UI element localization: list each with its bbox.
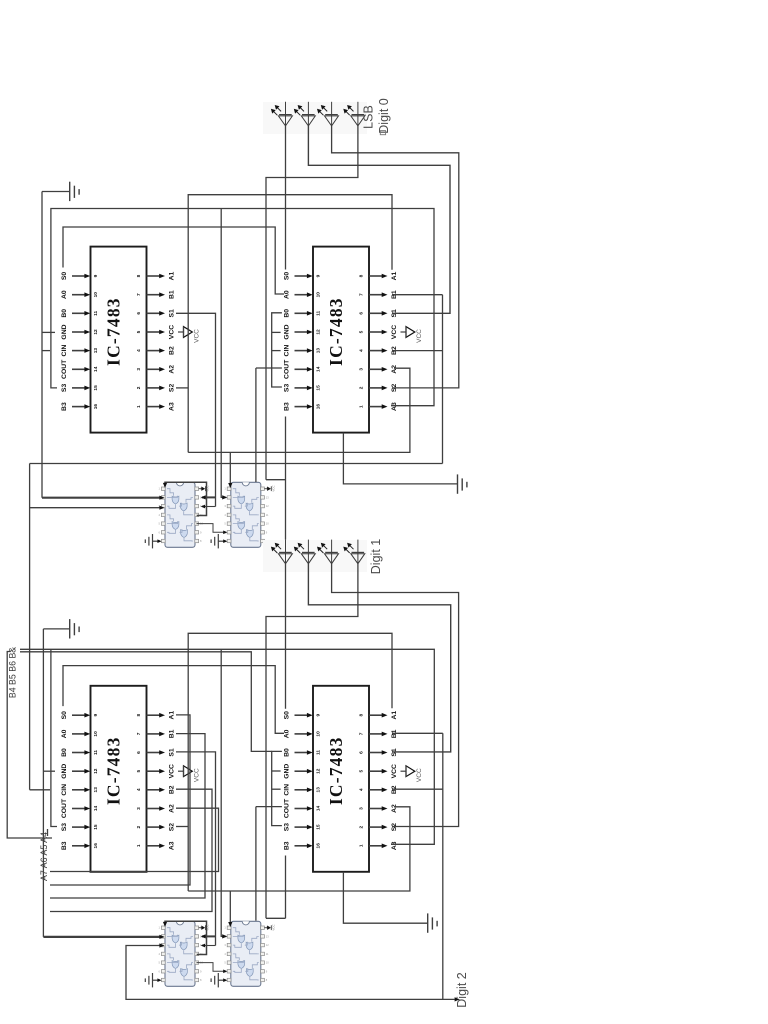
svg-text:IC-7483: IC-7483 — [104, 736, 124, 805]
svg-text:VCC: VCC — [169, 764, 176, 778]
svg-text:11: 11 — [316, 310, 322, 315]
wire A1(U4) riser and long vertical — [188, 633, 392, 891]
wire S1(U3) down to U7 right pin2 — [176, 752, 216, 946]
wire S3(U1) to A3(U2) — [51, 209, 434, 406]
svg-text:A0: A0 — [61, 290, 68, 299]
svg-text:A0: A0 — [61, 729, 68, 738]
svg-text:LSB: LSB — [362, 105, 376, 129]
svg-text:VCC: VCC — [391, 764, 398, 778]
svg-text:2: 2 — [136, 825, 142, 828]
svg-text:8: 8 — [359, 714, 365, 717]
ground GND bottom-right — [428, 913, 437, 932]
svg-text:B3: B3 — [284, 402, 291, 411]
gate inside U6 — [238, 496, 245, 504]
gate inside U7 — [172, 935, 179, 943]
svg-text:3: 3 — [359, 368, 365, 371]
ground GND mid-right — [458, 474, 467, 493]
svg-text:7: 7 — [359, 732, 365, 735]
svg-text:6: 6 — [136, 312, 142, 315]
wire COUT(U4) stub — [256, 806, 282, 808]
svg-text:A1: A1 — [391, 711, 398, 720]
gate inside U7 — [172, 961, 179, 969]
gate inside U5 — [172, 522, 179, 530]
VCC power symbol of U4 — [401, 770, 407, 772]
svg-text:6: 6 — [359, 312, 365, 315]
gate inside U8 — [238, 935, 245, 943]
svg-text:S1: S1 — [169, 748, 176, 757]
wire B-input line 2 to B0(U4) — [20, 652, 272, 752]
svg-text:VCC: VCC — [194, 329, 201, 343]
wire loop over top of U7 from right pin4 to left pin1 — [165, 921, 207, 954]
wire A-input lines to U3 right-side pins — [50, 808, 219, 871]
svg-text:16: 16 — [93, 404, 99, 410]
svg-text:B0: B0 — [284, 309, 291, 318]
wire S0(U3) to A0(U4) — [63, 666, 284, 734]
svg-text:4: 4 — [136, 349, 142, 352]
gate inside U7 — [181, 969, 188, 977]
mini VCC of U6 — [264, 488, 267, 490]
svg-text:5: 5 — [359, 330, 365, 333]
svg-text:VCC: VCC — [416, 329, 423, 343]
svg-text:S2: S2 — [169, 823, 176, 832]
svg-text:6: 6 — [359, 751, 365, 754]
LED D3 (digit 0) — [317, 102, 339, 126]
svg-text:9: 9 — [93, 274, 99, 277]
svg-text:S1: S1 — [169, 309, 176, 318]
gate inside U6 — [246, 503, 253, 511]
svg-text:COUT: COUT — [284, 798, 291, 818]
wire LED1 down to S0(U2) label top — [285, 126, 287, 270]
svg-text:10: 10 — [93, 731, 99, 737]
IC U2 4-bit adder IC-7483 — [284, 247, 424, 433]
ground GND top-left — [70, 182, 79, 201]
svg-text:14: 14 — [93, 806, 99, 812]
svg-text:A3: A3 — [169, 402, 176, 411]
wire branch to U6 pin1 — [229, 452, 231, 485]
svg-text:5: 5 — [359, 770, 365, 773]
mini VCC of U7 — [199, 927, 202, 929]
wire U6 ground to pin7 — [218, 540, 224, 542]
svg-text:5: 5 — [136, 770, 142, 773]
wire S1(U4) to LED6 — [308, 564, 450, 752]
wire U7 ground to pin7 — [153, 979, 159, 981]
svg-text:A2: A2 — [391, 804, 398, 813]
svg-text:S0: S0 — [284, 272, 291, 281]
svg-text:COUT: COUT — [61, 798, 68, 818]
ground GND mid-left — [70, 619, 79, 638]
svg-text:10: 10 — [316, 292, 322, 298]
svg-text:13: 13 — [93, 787, 99, 793]
wire S2(U4) to LED7 — [332, 564, 459, 827]
svg-text:10: 10 — [316, 731, 322, 737]
wire B3(U2) label bottom down to LED5 top, via U-link — [285, 417, 287, 540]
gate inside U5 — [181, 530, 188, 538]
svg-text:3: 3 — [136, 807, 142, 810]
svg-text:B3: B3 — [284, 841, 291, 850]
LED D6 (digit 1) — [294, 540, 316, 564]
svg-text:11: 11 — [93, 310, 99, 315]
svg-text:S2: S2 — [169, 384, 176, 393]
svg-text:COUT: COUT — [284, 359, 291, 379]
gate inside U8 — [246, 969, 253, 977]
svg-text:A2: A2 — [169, 804, 176, 813]
svg-text:VCC: VCC — [194, 768, 201, 782]
wire ground2 to GND(U3) and thick line to U7 pin2 — [43, 628, 69, 630]
svg-text:14: 14 — [93, 366, 99, 372]
gate inside U8 — [238, 961, 245, 969]
svg-text:10: 10 — [93, 292, 99, 298]
wire LED8 down to U-link — [266, 564, 358, 919]
wire B1/B2(U2) to carry chain — [392, 294, 443, 296]
svg-text:9: 9 — [93, 714, 99, 717]
svg-text:A1: A1 — [391, 271, 398, 280]
svg-text:14: 14 — [316, 806, 322, 812]
svg-text:15: 15 — [316, 824, 322, 830]
wire B3(U4) label bottom to U-link — [285, 856, 287, 919]
svg-text:GND: GND — [284, 324, 291, 339]
svg-text:13: 13 — [316, 787, 322, 793]
svg-text:GND: GND — [61, 764, 68, 779]
wire B1/B2(U4) down to Digit 2 output — [392, 732, 443, 734]
wire S0(U1) to A0(U2) — [63, 227, 284, 294]
svg-text:IC-7483: IC-7483 — [326, 736, 346, 805]
small stray box — [380, 131, 385, 135]
gate inside U8 — [246, 942, 253, 950]
wire COUT(U2) stub — [256, 367, 282, 369]
svg-text:A0: A0 — [284, 290, 291, 299]
svg-text:Digit 0: Digit 0 — [377, 98, 391, 133]
svg-text:7: 7 — [136, 732, 142, 735]
wire LED4 down to U-link — [266, 126, 358, 480]
svg-text:B1: B1 — [169, 290, 176, 299]
svg-text:B0: B0 — [284, 748, 291, 757]
svg-text:2: 2 — [359, 386, 365, 389]
svg-text:IC-7483: IC-7483 — [104, 297, 124, 366]
svg-text:A3: A3 — [169, 841, 176, 850]
ground GND of U8 — [211, 973, 218, 987]
svg-text:S3: S3 — [61, 384, 68, 393]
wire U5 pin5 to U6 pin6 — [197, 524, 225, 533]
svg-text:15: 15 — [316, 385, 322, 391]
svg-text:12: 12 — [316, 768, 322, 774]
IC U4 4-bit adder IC-7483 — [284, 686, 424, 872]
wire U5 ground to pin7 — [153, 540, 159, 542]
svg-text:13: 13 — [316, 348, 322, 354]
svg-text:A3: A3 — [391, 841, 398, 850]
svg-text:CIN: CIN — [284, 784, 291, 796]
ground GND of U7 — [145, 973, 152, 987]
LED D1 (digit 0) — [271, 102, 293, 126]
wire S2(U1) to A2(U2) — [176, 387, 188, 389]
svg-text:IC-7483: IC-7483 — [326, 297, 346, 366]
wire ground3 to bottom of U2 — [343, 433, 457, 484]
LED D7 (digit 1) — [317, 540, 339, 564]
svg-text:Digit 1: Digit 1 — [369, 539, 383, 574]
svg-text:B3: B3 — [61, 402, 68, 411]
svg-text:B1: B1 — [169, 729, 176, 738]
svg-text:S0: S0 — [284, 711, 291, 720]
quad gate IC package U7 — [159, 921, 210, 986]
svg-text:15: 15 — [93, 385, 99, 391]
svg-text:B0: B0 — [61, 309, 68, 318]
VCC power symbol of U2 — [401, 331, 407, 333]
quad gate IC package U8 — [224, 921, 275, 986]
LED D8 (digit 1) — [343, 540, 365, 564]
wire comb B0/GND/CIN/S3 of U4 — [272, 751, 282, 825]
wire U7 pin5 to U8 pin6 — [197, 963, 225, 972]
svg-text:8: 8 — [136, 274, 142, 277]
svg-text:B4 B5 B6 B&: B4 B5 B6 B& — [8, 647, 18, 698]
svg-text:4: 4 — [359, 349, 365, 352]
svg-text:B0: B0 — [61, 748, 68, 757]
svg-text:A1: A1 — [169, 271, 176, 280]
svg-text:12: 12 — [93, 768, 99, 774]
svg-text:16: 16 — [316, 404, 322, 410]
svg-text:A3: A3 — [391, 402, 398, 411]
wire A1(U2) riser and long vertical — [188, 195, 392, 453]
svg-text:A2: A2 — [391, 365, 398, 374]
svg-text:S0: S0 — [61, 272, 68, 281]
svg-text:7: 7 — [136, 293, 142, 296]
VCC power symbol of U3 — [178, 770, 184, 772]
wire S2(U2) to LED3 — [332, 126, 459, 388]
svg-text:8: 8 — [136, 714, 142, 717]
wire from bus H to U6 pin2 — [221, 209, 224, 498]
svg-text:4: 4 — [359, 788, 365, 791]
IC U1 4-bit adder IC-7483 — [61, 247, 201, 433]
mini VCC of U5 — [199, 488, 202, 490]
svg-text:2: 2 — [359, 825, 365, 828]
svg-text:6: 6 — [136, 751, 142, 754]
svg-text:VCC: VCC — [271, 485, 275, 492]
svg-text:12: 12 — [316, 329, 322, 335]
gate inside U6 — [246, 530, 253, 538]
LED D2 (digit 0) — [294, 102, 316, 126]
svg-text:A2: A2 — [169, 365, 176, 374]
svg-text:11: 11 — [316, 750, 322, 755]
svg-text:1: 1 — [359, 405, 365, 408]
quad gate IC package U6 — [224, 482, 275, 547]
svg-text:3: 3 — [136, 368, 142, 371]
svg-text:VCC: VCC — [169, 325, 176, 339]
wire from bus H to U8 pin2 — [221, 649, 224, 936]
svg-text:S3: S3 — [284, 384, 291, 393]
wire branch to U8 pin1 — [229, 891, 231, 924]
svg-text:S3: S3 — [61, 823, 68, 832]
svg-text:VCC: VCC — [416, 768, 423, 782]
svg-text:CIN: CIN — [61, 784, 68, 796]
svg-text:3: 3 — [359, 807, 365, 810]
LED D5 (digit 1) — [271, 540, 293, 564]
svg-text:5: 5 — [136, 330, 142, 333]
svg-text:4: 4 — [136, 788, 142, 791]
svg-text:16: 16 — [316, 843, 322, 849]
svg-text:A1: A1 — [169, 711, 176, 720]
svg-text:S0: S0 — [61, 711, 68, 720]
svg-text:CIN: CIN — [284, 345, 291, 357]
quad gate IC package U5 — [159, 482, 210, 547]
svg-text:1: 1 — [136, 844, 142, 847]
svg-text:9: 9 — [316, 274, 322, 277]
ground GND of U5 — [145, 534, 152, 548]
svg-text:B2: B2 — [169, 346, 176, 355]
gate inside U6 — [238, 522, 245, 530]
wire LED5 down to S0(U4) label top — [285, 564, 287, 709]
wire ground1 to GND/CIN of U1 and thick line to U5 pin2 — [42, 191, 70, 193]
svg-text:A0: A0 — [284, 729, 291, 738]
wire loop over top of U5 from right pin4 to left pin1 — [165, 482, 207, 515]
VCC power symbol of U1 — [178, 331, 184, 333]
wire S1(U2) to LED2 — [308, 126, 450, 313]
LED D4 (digit 0) — [343, 102, 365, 126]
svg-text:13: 13 — [93, 348, 99, 354]
wire carry vertical down to CIN(U3) — [29, 464, 31, 790]
svg-text:GND: GND — [61, 324, 68, 339]
ground GND of U6 — [211, 534, 218, 548]
svg-text:1: 1 — [136, 405, 142, 408]
svg-text:14: 14 — [316, 366, 322, 372]
wire S1(U1) down to U5 right pin2 — [176, 313, 216, 506]
svg-text:2: 2 — [136, 386, 142, 389]
svg-text:12: 12 — [93, 329, 99, 335]
svg-text:1: 1 — [359, 844, 365, 847]
svg-text:9: 9 — [316, 714, 322, 717]
svg-text:S3: S3 — [284, 823, 291, 832]
gate inside U5 — [172, 496, 179, 504]
wire A4 stub — [47, 829, 49, 836]
wire B-inputs / S3(U3) to A3(U4) — [20, 649, 434, 844]
svg-text:Digit 2: Digit 2 — [455, 972, 469, 1007]
svg-text:11: 11 — [93, 750, 99, 755]
svg-text:8: 8 — [359, 274, 365, 277]
svg-text:16: 16 — [93, 843, 99, 849]
svg-text:COUT: COUT — [61, 359, 68, 379]
wire U8 ground to pin7 — [218, 979, 224, 981]
svg-text:VCC: VCC — [271, 924, 275, 931]
gate inside U7 — [180, 942, 187, 950]
svg-text:B2: B2 — [169, 785, 176, 794]
svg-text:7: 7 — [359, 293, 365, 296]
wire Digit 2 run with frame — [126, 946, 455, 1000]
svg-text:15: 15 — [93, 824, 99, 830]
wire B-input bracket to B3(U3) — [7, 652, 52, 839]
svg-text:B3: B3 — [61, 841, 68, 850]
wire comb B0/GND/CIN/S3 of U2 — [272, 313, 282, 387]
mini VCC of U8 — [264, 927, 267, 929]
wire branch to U5 pin3 — [30, 507, 161, 509]
svg-text:GND: GND — [284, 764, 291, 779]
svg-text:CIN: CIN — [61, 345, 68, 357]
gate inside U5 — [180, 503, 187, 511]
svg-text:VCC: VCC — [391, 325, 398, 339]
IC U3 4-bit adder IC-7483 — [61, 686, 201, 872]
wire S2(U3) to A2(U4) — [176, 826, 188, 828]
wire ground4 to bottom of U4 — [343, 872, 427, 923]
